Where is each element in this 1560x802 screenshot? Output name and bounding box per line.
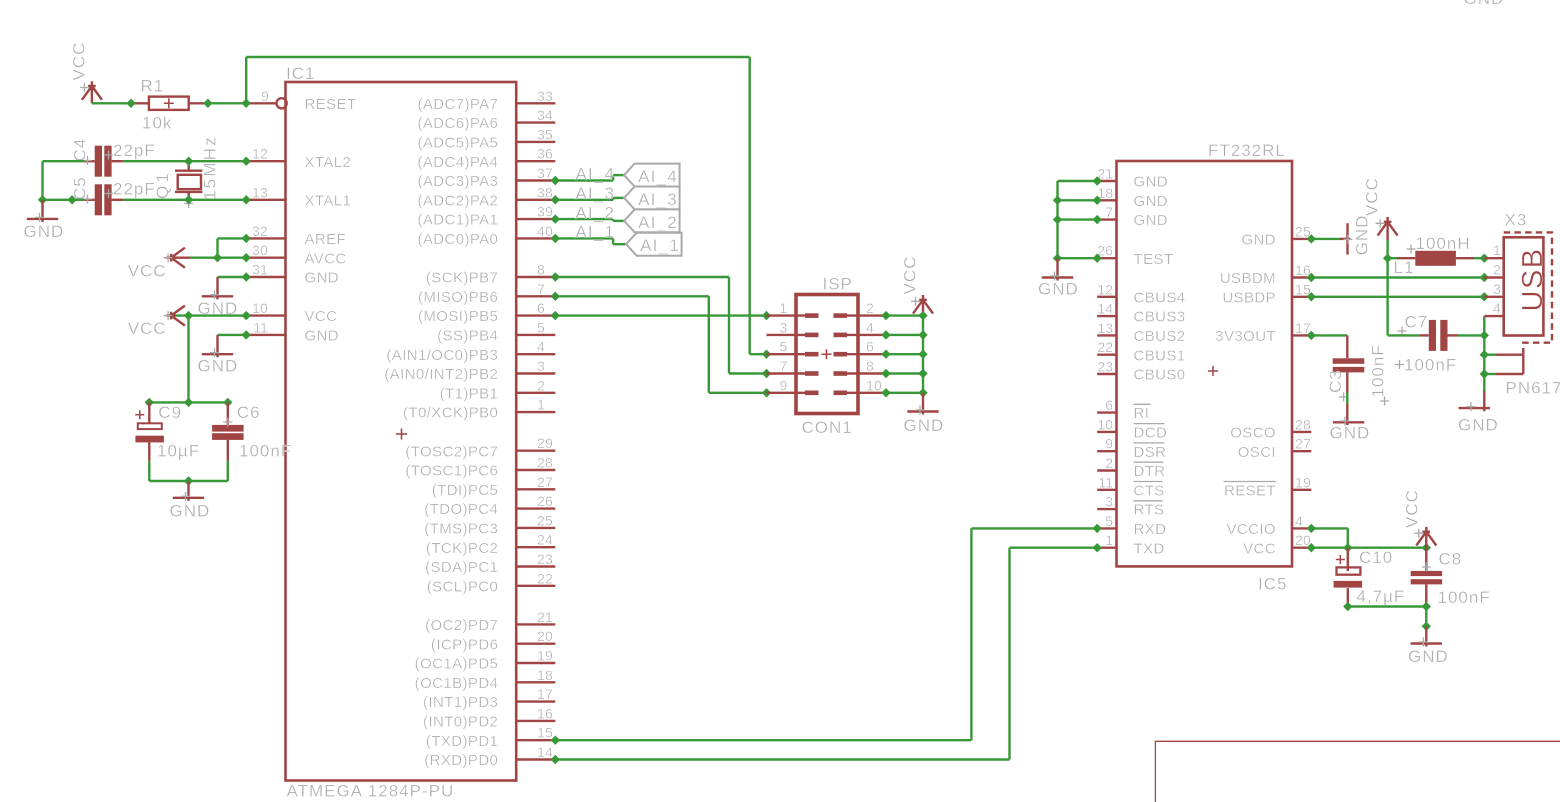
junction ISP pin10 (881, 388, 890, 397)
IC5 pin 9 DSR (1097, 436, 1166, 461)
svg-text:C3: C3 (1326, 369, 1345, 393)
svg-text:36: 36 (537, 146, 553, 162)
IC5 pin 3 RTS (1097, 494, 1164, 519)
ground GND at FT pin 25 (rotated) (1340, 215, 1372, 256)
wire ISP pin 8 to GND rail (886, 372, 923, 374)
X3 pin 2 (1484, 262, 1503, 278)
wire XTAL2 left rail (43, 161, 85, 200)
svg-text:VCC: VCC (70, 42, 89, 81)
wire R1 to RESET pin 9 (208, 102, 246, 104)
svg-text:CBUS2: CBUS2 (1134, 328, 1186, 345)
svg-text:RXD: RXD (1134, 521, 1167, 538)
junction AI_3 pin (551, 195, 560, 204)
wire USBDP (1311, 296, 1484, 298)
junction FT GND rail row4 (1053, 254, 1062, 263)
ground GND at C3 (1330, 404, 1371, 443)
CON1 pin 6 (834, 339, 887, 357)
junction AI_1 pin (551, 234, 560, 243)
ground GND below C8 (1408, 626, 1449, 666)
junction RESET node (242, 99, 251, 108)
svg-text:27: 27 (537, 474, 553, 490)
junction R1 left (126, 99, 135, 108)
svg-text:L1: L1 (1394, 258, 1415, 277)
svg-text:(MISO)PB6: (MISO)PB6 (418, 289, 498, 306)
junction ISP pin1 (762, 311, 771, 320)
IC5 pin 11 CTS (1097, 474, 1165, 499)
svg-text:TXD: TXD (1134, 540, 1165, 557)
svg-text:3: 3 (1493, 281, 1501, 297)
IC1 pin 27 (TDI)PC5 (432, 474, 556, 499)
junction XTAL1 pin (242, 195, 251, 204)
svg-text:(MOSI)PB5: (MOSI)PB5 (418, 308, 498, 325)
svg-text:RESET: RESET (1224, 482, 1276, 499)
svg-text:C10: C10 (1359, 548, 1393, 567)
wire L1 to USB pin1 (1474, 257, 1484, 259)
svg-text:(AIN1/OC0)PB3: (AIN1/OC0)PB3 (386, 347, 498, 364)
IC1 pin 38 (ADC2)PA2 (417, 184, 555, 209)
svg-text:(T1)PB1: (T1)PB1 (440, 385, 499, 402)
IC5 pin 14 CBUS3 (1097, 301, 1185, 326)
IC1 pin 16 (INT0)PD2 (423, 705, 555, 730)
svg-text:2: 2 (1493, 262, 1501, 278)
wire shield S1 stub (1484, 354, 1496, 356)
wire VCC to R1 (92, 102, 131, 104)
svg-text:VCCIO: VCCIO (1226, 521, 1276, 538)
wire ISP pin2 to VCC (886, 314, 923, 316)
IC1 pin 5 (SS)PB4 (437, 319, 555, 344)
svg-text:15MHz: 15MHz (201, 135, 220, 200)
svg-text:9: 9 (1105, 436, 1113, 452)
svg-text:(OC1B)PD4: (OC1B)PD4 (415, 675, 499, 692)
svg-text:8: 8 (866, 358, 874, 374)
junction PD0 pin (551, 755, 560, 764)
svg-text:GND: GND (1134, 174, 1169, 191)
svg-text:DTR: DTR (1134, 463, 1166, 480)
svg-text:6: 6 (537, 300, 545, 316)
svg-text:34: 34 (537, 107, 553, 123)
IC1 pin 10 VCC (246, 300, 337, 325)
svg-text:FT232RL: FT232RL (1208, 141, 1286, 160)
svg-text:28: 28 (1295, 416, 1311, 432)
junction Q1 bottom (184, 195, 193, 204)
svg-text:GND: GND (24, 222, 65, 241)
X3 pin 4 (1484, 300, 1503, 316)
CON1 pin 9 (767, 377, 819, 395)
svg-text:(ADC4)PA4: (ADC4)PA4 (417, 154, 498, 171)
wire FT GND rail (1058, 181, 1098, 258)
IC5 pin 28 OSCO (1230, 416, 1311, 441)
capacitor C3 (1333, 335, 1365, 401)
svg-text:AI_2: AI_2 (575, 203, 615, 222)
junction VCC pin10 (242, 311, 251, 320)
junction AREF-AVCC (213, 253, 222, 262)
svg-text:GND: GND (1134, 212, 1169, 229)
wire GND pin31 (218, 276, 247, 278)
ground GND below C9 C6 (170, 481, 211, 521)
junction XTAL2 pin (242, 157, 251, 166)
IC1 pin 37 (ADC3)PA3 (417, 165, 555, 190)
svg-text:(ADC6)PA6: (ADC6)PA6 (417, 115, 498, 132)
junction ISP pin6 (881, 350, 890, 359)
junction AREF pin (242, 234, 251, 243)
wire C10 to C8 bottom (1348, 605, 1427, 607)
IC1 pin 30 AVCC (246, 242, 346, 267)
svg-text:6: 6 (1105, 397, 1113, 413)
svg-text:(ADC7)PA7: (ADC7)PA7 (417, 96, 498, 113)
CON1 pin 4 (834, 319, 887, 337)
svg-text:AI_4: AI_4 (575, 165, 615, 184)
wire XTAL1 net (43, 199, 85, 201)
IC1 pin 3 (AIN0/INT2)PB2 (384, 358, 555, 383)
junction FT GND rail row1 (1053, 196, 1062, 205)
svg-text:3: 3 (537, 358, 545, 374)
wire FT GND 18 (1058, 199, 1098, 201)
svg-text:(TXD)PD1: (TXD)PD1 (426, 733, 498, 750)
connector CON1 ISP body (796, 295, 858, 414)
wire C8 bottom to GND (1425, 607, 1427, 627)
svg-text:1: 1 (537, 397, 545, 413)
wire RXD to PD1 (555, 528, 1097, 740)
svg-text:USB: USB (1517, 247, 1549, 311)
IC5 pin 13 CBUS2 (1097, 320, 1185, 345)
IC5 pin 20 VCC (1243, 532, 1311, 557)
IC1 pin 28 (TOSC1)PC6 (405, 455, 555, 480)
IC5 pin 6 RI (1097, 397, 1150, 422)
svg-text:TEST: TEST (1134, 251, 1174, 268)
svg-text:RTS: RTS (1134, 502, 1165, 519)
junction C10 bottom (1343, 602, 1352, 611)
junction top rail C6 (223, 398, 232, 407)
IC1 pin 17 (INT1)PD3 (423, 686, 555, 711)
svg-text:23: 23 (1097, 359, 1113, 375)
junction top rail C9 (145, 398, 154, 407)
svg-text:VCC: VCC (1243, 540, 1276, 557)
svg-text:10µF: 10µF (157, 441, 200, 460)
junction ISP pin7 (762, 369, 771, 378)
svg-text:Q1: Q1 (153, 170, 172, 199)
value 22pF C5 (104, 180, 156, 199)
wire XTAL2 net (123, 160, 246, 162)
junction AVCC pin (242, 253, 251, 262)
junction FT VCC pin (1307, 543, 1316, 552)
IC5 pin 21 GND (1097, 166, 1168, 191)
svg-text:AI_3: AI_3 (575, 184, 615, 203)
junction PB7 pin (551, 272, 560, 281)
svg-text:22pF: 22pF (113, 180, 156, 199)
svg-text:5: 5 (537, 319, 545, 335)
wire 3V3OUT to C3 (1311, 334, 1347, 336)
value 100nH (1407, 234, 1471, 254)
svg-text:(ADC0)PA0: (ADC0)PA0 (417, 231, 498, 248)
junction GND node below C8 (1422, 622, 1431, 631)
IC1 pin 39 (ADC1)PA1 (417, 204, 555, 229)
svg-text:4: 4 (866, 319, 874, 335)
svg-text:(T0/XCK)PB0: (T0/XCK)PB0 (403, 405, 498, 422)
svg-text:CBUS1: CBUS1 (1134, 347, 1186, 364)
power VCC symbol at R1 (70, 42, 102, 104)
svg-text:GND: GND (1038, 280, 1079, 299)
ground GND left rail (24, 200, 65, 241)
svg-text:1: 1 (780, 300, 788, 316)
svg-text:XTAL1: XTAL1 (305, 192, 352, 209)
capacitor C5 (83, 184, 123, 215)
svg-text:GND: GND (305, 328, 340, 345)
svg-text:15: 15 (537, 725, 553, 741)
capacitor C9 (polarized) (135, 402, 164, 460)
wire net AI_2 (555, 219, 624, 221)
connector X3 USB body (1496, 232, 1552, 374)
IC5 pin 12 CBUS4 (1097, 281, 1185, 306)
svg-text:20: 20 (537, 628, 553, 644)
svg-text:AI_1: AI_1 (640, 236, 680, 255)
wire USB pin4 drop (1483, 316, 1485, 335)
capacitor C10 (polarized) (1334, 548, 1363, 607)
IC1 pin 15 (TXD)PD1 (426, 725, 555, 750)
IC1 pin 25 (TMS)PC3 (424, 512, 555, 537)
IC1 pin 32 AREF (246, 223, 346, 248)
svg-text:ATMEGA 1284P-PU: ATMEGA 1284P-PU (287, 782, 455, 801)
svg-text:29: 29 (537, 435, 553, 451)
junction PB6 pin (551, 292, 560, 301)
value 100nF C7 (1395, 356, 1457, 375)
svg-text:9: 9 (780, 377, 788, 393)
svg-text:16: 16 (537, 705, 553, 721)
IC5 pin 23 CBUS0 (1097, 359, 1185, 384)
junction ISP VCC (918, 311, 927, 320)
svg-text:PN617: PN617 (1506, 379, 1560, 398)
svg-text:13: 13 (252, 184, 268, 200)
power VCC at USB (1363, 177, 1398, 240)
svg-text:(ADC3)PA3: (ADC3)PA3 (417, 173, 498, 190)
junction C5 left (67, 195, 76, 204)
svg-text:22: 22 (1097, 339, 1113, 355)
svg-text:4: 4 (1493, 300, 1501, 316)
capacitor C6 (212, 402, 244, 460)
wire shield S2 stub (1484, 373, 1496, 375)
junction ISP pin5 (762, 350, 771, 359)
svg-text:AREF: AREF (305, 231, 347, 248)
wire C7 to USB pin4 net (1458, 334, 1484, 336)
svg-text:(SDA)PC1: (SDA)PC1 (425, 559, 498, 576)
svg-text:(TCK)PC2: (TCK)PC2 (426, 540, 498, 557)
wire ISP pin 10 to GND rail (886, 392, 923, 394)
wire ISP right vertical (922, 316, 924, 393)
svg-text:USBDM: USBDM (1220, 270, 1276, 287)
svg-text:AI_3: AI_3 (638, 190, 678, 209)
wire USBDM (1311, 276, 1484, 278)
junction FT RXD pin (1093, 524, 1102, 533)
junction FT GND pin row0 (1093, 176, 1102, 185)
junction FT USBDM pin (1307, 273, 1316, 282)
junction FT GND pin row4 (1093, 254, 1102, 263)
CON1 pin 10 (834, 377, 887, 395)
junction FT VCCIO pin (1307, 524, 1316, 533)
crystal Q1 (175, 161, 202, 208)
svg-text:7: 7 (537, 281, 545, 297)
svg-text:28: 28 (537, 455, 553, 471)
IC1 pin 2 (T1)PB1 (440, 377, 556, 402)
IC1 pin 24 (TCK)PC2 (426, 532, 555, 557)
wire USB shield net (1483, 335, 1485, 391)
IC1 pin 21 (OC2)PD7 (425, 609, 555, 634)
IC5 pin 5 RXD (1097, 513, 1166, 538)
svg-text:30: 30 (252, 242, 268, 258)
CON1 pin 3 (767, 319, 819, 337)
junction shield S2 (1480, 369, 1489, 378)
CON1 pin 8 (834, 358, 887, 376)
svg-text:40: 40 (537, 223, 553, 239)
svg-text:(SCK)PB7: (SCK)PB7 (426, 270, 498, 287)
svg-text:38: 38 (537, 184, 553, 200)
wire MISO to ISP pin 9 (555, 296, 766, 393)
svg-text:10k: 10k (142, 114, 172, 133)
svg-text:GND: GND (198, 357, 239, 376)
svg-text:9: 9 (261, 88, 269, 104)
svg-text:18: 18 (537, 667, 553, 683)
svg-text:DCD: DCD (1134, 425, 1168, 442)
svg-text:(OC2)PD7: (OC2)PD7 (425, 617, 498, 634)
wire net AI_4 (555, 175, 624, 180)
junction ISP pin4 (881, 330, 890, 339)
junction left rail GND (38, 195, 47, 204)
svg-text:10: 10 (866, 377, 882, 393)
wire VCC vertical at USB (1386, 240, 1388, 335)
svg-text:CBUS3: CBUS3 (1134, 309, 1186, 326)
svg-text:(ADC2)PA2: (ADC2)PA2 (417, 192, 498, 209)
svg-text:5: 5 (1105, 513, 1113, 529)
IC1 pin 6 (MOSI)PB5 (418, 300, 555, 325)
wire ISP pin 6 to GND rail (886, 353, 923, 355)
CON1 pin 1 (767, 300, 819, 318)
junction AI_4 pin (551, 176, 560, 185)
svg-text:2: 2 (537, 377, 545, 393)
IC5 pin 22 CBUS1 (1097, 339, 1185, 364)
svg-text:AI_2: AI_2 (638, 213, 678, 232)
svg-text:OSCI: OSCI (1238, 444, 1276, 461)
svg-text:AI_1: AI_1 (575, 223, 615, 242)
svg-text:(SS)PB4: (SS)PB4 (437, 328, 498, 345)
svg-text:100nF: 100nF (1438, 588, 1491, 607)
power VCC at ISP (901, 256, 934, 316)
svg-text:CBUS4: CBUS4 (1134, 289, 1186, 306)
junction GND11 pin (242, 330, 251, 339)
value 100nF C3 (rotated) (1369, 344, 1389, 405)
junction FT USBDP pin (1307, 292, 1316, 301)
junction USB pin3 (1480, 292, 1489, 301)
wire net AI_3 (555, 198, 624, 200)
resistor R1 (131, 97, 208, 110)
net flag AI_4 (624, 164, 680, 187)
IC1 pin 8 (SCK)PB7 (426, 262, 555, 287)
svg-text:VCC: VCC (1403, 489, 1422, 528)
svg-text:DSR: DSR (1134, 444, 1167, 461)
svg-text:22: 22 (537, 570, 553, 586)
X3 pin 1 (1484, 242, 1503, 258)
IC5 pin 27 OSCI (1238, 436, 1312, 461)
svg-text:RESET: RESET (305, 96, 357, 113)
IC1 pin 1 (T0/XCK)PB0 (403, 397, 555, 422)
junction top rail mid (184, 398, 193, 407)
svg-text:(TDI)PC5: (TDI)PC5 (432, 482, 499, 499)
junction shield S1 (1480, 350, 1489, 359)
svg-text:GND: GND (1134, 193, 1169, 210)
IC1 pin 31 GND (246, 262, 339, 287)
ground GND at pin 31 (198, 277, 239, 318)
svg-text:22pF: 22pF (113, 141, 156, 160)
IC1 pin 9 RESET (246, 88, 356, 113)
CON1 pin 2 (834, 300, 887, 318)
wire FT GND 7 (1058, 218, 1098, 220)
svg-text:(INT1)PD3: (INT1)PD3 (423, 694, 498, 711)
IC5 pin 1 TXD (1097, 532, 1165, 557)
svg-text:3V3OUT: 3V3OUT (1215, 328, 1276, 345)
svg-text:25: 25 (537, 512, 553, 528)
svg-text:IC5: IC5 (1258, 575, 1287, 594)
CON1 pin 7 (767, 358, 819, 376)
svg-text:100nF: 100nF (1404, 356, 1457, 375)
svg-text:USBDP: USBDP (1222, 289, 1276, 306)
IC1 pin 22 (SCL)PC0 (427, 570, 556, 595)
IC1 pin 11 GND (246, 319, 339, 344)
X3 pin 3 (1484, 281, 1503, 297)
IC5 pin 7 GND (1097, 204, 1168, 229)
capacitor C8 (1411, 548, 1442, 607)
IC1 pin 19 (OC1A)PD5 (415, 648, 556, 673)
power VCC at pin 10 (128, 306, 185, 339)
svg-text:VCC: VCC (128, 261, 167, 280)
junction VCC branch (184, 311, 193, 320)
ground GND at pin 11 (198, 335, 239, 376)
svg-text:(TOSC1)PC6: (TOSC1)PC6 (405, 463, 498, 480)
svg-text:(INT0)PD2: (INT0)PD2 (423, 714, 498, 731)
ground GND at ISP (904, 393, 945, 435)
IC1 pin 34 (ADC6)PA6 (417, 107, 555, 132)
IC1 pin 13 XTAL1 (246, 184, 351, 209)
svg-text:14: 14 (537, 744, 553, 760)
svg-text:VCC: VCC (1363, 177, 1382, 216)
wire net AI_1 (555, 238, 626, 244)
junction C7 right (1480, 331, 1489, 340)
svg-text:IC1: IC1 (286, 64, 315, 83)
svg-text:(ICP)PD6: (ICP)PD6 (431, 636, 498, 653)
svg-text:23: 23 (537, 551, 553, 567)
svg-text:1: 1 (1493, 242, 1501, 258)
svg-text:14: 14 (1097, 301, 1113, 317)
svg-text:AVCC: AVCC (305, 250, 347, 267)
ground GND at USB shield (1458, 391, 1499, 435)
svg-text:5: 5 (780, 339, 788, 355)
svg-text:4: 4 (537, 339, 545, 355)
ground GND at FT232RL TEST (1038, 258, 1079, 298)
junction GND rail 6 (918, 350, 927, 359)
wire VCC to L1 (1388, 257, 1397, 259)
wire VCC row (1311, 547, 1426, 549)
junction C8 bottom (1422, 602, 1431, 611)
svg-text:13: 13 (1097, 320, 1113, 336)
svg-text:OSCO: OSCO (1230, 425, 1276, 442)
svg-text:1: 1 (1105, 532, 1113, 548)
wire C9 down (149, 461, 228, 481)
svg-text:12: 12 (252, 146, 268, 162)
IC5 pin 2 DTR (1097, 455, 1165, 480)
svg-text:33: 33 (537, 88, 553, 104)
wire VCC down to C9 C6 (187, 316, 189, 403)
svg-text:R1: R1 (141, 77, 165, 96)
net flag AI_1 (626, 233, 682, 256)
junction USB pin2 (1480, 273, 1489, 282)
junction PD1 pin (551, 736, 560, 745)
svg-text:GND: GND (1458, 416, 1499, 435)
